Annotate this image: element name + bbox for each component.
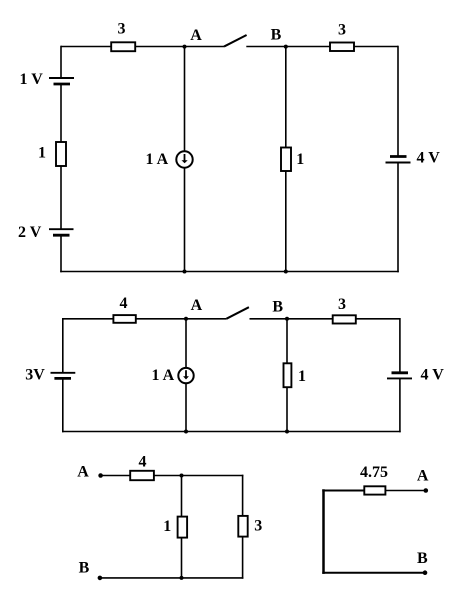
svg-text:3: 3 [254,518,262,535]
junction dot top [180,474,184,478]
wire left side upper [62,318,64,373]
wire right side lower [397,163,399,273]
svg-text:4: 4 [120,295,128,312]
wire A to resistor [101,475,131,477]
battery 2 V [49,229,74,235]
resistor 1 (circuit 1 left branch) [56,142,66,166]
svg-text:4 V: 4 V [421,367,445,384]
junction dot B-bottom [285,430,289,434]
svg-text:4 V: 4 V [417,150,441,167]
current source 1 A (circuit 2) [178,368,193,383]
svg-text:A: A [191,297,203,314]
resistor 3 (circuit 3) [238,516,247,537]
wire left vertical [322,489,325,574]
node B (circuit 1) [284,45,288,49]
wire battery to resistor [60,84,62,142]
battery 4 V (circuit 2) [387,373,412,379]
wire right side upper [399,318,401,373]
resistor 4.75 [364,486,385,494]
resistor 1 (circuit 1 B branch) [281,148,291,172]
svg-text:2 V: 2 V [18,224,42,241]
resistor 1 (circuit 2 B branch) [284,363,292,387]
svg-text:1 V: 1 V [20,71,44,88]
wire top-left segment [61,46,111,48]
svg-text:3: 3 [118,21,126,38]
svg-text:A: A [77,464,89,481]
svg-text:4.75: 4.75 [360,464,388,481]
wire middle branch upper [184,47,186,151]
svg-text:B: B [79,560,90,577]
wire branch 3 lower [242,537,244,579]
wire branch 1 upper [181,476,183,517]
switch (open, circuit 1) [224,35,247,47]
wire top segment left [322,490,364,492]
wire B branch lower [286,387,288,431]
svg-text:3: 3 [338,296,346,313]
svg-text:3: 3 [338,22,346,39]
terminal B [98,576,103,581]
svg-text:3V: 3V [25,367,45,384]
wire middle branch upper [185,319,187,368]
wire branch 1 lower [181,538,183,578]
svg-text:B: B [272,299,283,316]
wire battery to bottom-left corner [60,235,62,272]
wire branch 3 upper [242,475,244,516]
node A (circuit 2) [184,317,188,321]
svg-text:1: 1 [298,368,306,385]
wire resistor to switch pivot [135,46,224,48]
wire switch to node B [246,46,330,48]
svg-text:1 A: 1 A [152,367,175,384]
wire bottom (circuit 2) [62,431,401,433]
wire left side upper [60,46,62,78]
wire resistor to top-right corner [356,318,400,320]
wire bottom (circuit 3) [100,577,244,579]
wire resistor to top-right corner [154,475,244,477]
resistor 4 (circuit 3) [130,471,154,480]
wire right side lower [399,378,401,432]
junction dot middle-bottom [184,430,188,434]
resistor 3 (circuit 1 top-left) [111,42,135,51]
node B (circuit 2) [285,317,289,321]
battery 1 V [49,78,74,84]
wire bottom (circuit 4) [322,572,425,574]
svg-text:B: B [271,27,282,44]
resistor 3 (circuit 1 top-right) [330,43,354,52]
wire middle branch lower [185,384,187,432]
wire bottom (circuit 1) [60,271,399,273]
junction dot bottom [180,576,184,580]
terminal A [424,488,429,493]
terminal A [98,473,103,478]
wire resistor to switch pivot [136,318,227,320]
wire right side upper [397,46,399,157]
resistor 4 (circuit 2 top-left) [113,315,135,323]
terminal B [423,570,428,575]
node A (circuit 1) [183,45,187,49]
junction dot middle-bottom [183,270,187,274]
wire resistor to top-right corner [354,46,398,48]
svg-text:1 A: 1 A [146,151,169,168]
wire resistor to battery 2 V [60,166,62,229]
resistor 3 (circuit 2 top-right) [333,315,356,323]
svg-text:A: A [190,27,202,44]
battery 3V [51,373,76,379]
resistor 1 (circuit 3) [178,517,188,538]
wire switch to node B [250,318,333,320]
svg-text:A: A [417,468,429,485]
wire middle branch lower [184,168,186,272]
wire B branch upper [286,319,288,364]
svg-text:1: 1 [296,151,304,168]
junction dot B-bottom [284,270,288,274]
wire B branch upper [285,47,287,148]
battery 4 V (circuit 1) [386,157,411,163]
wire B branch lower [285,171,287,272]
wire left side lower [62,378,64,432]
current source 1 A (circuit 1) [176,151,192,167]
svg-text:B: B [417,550,428,567]
svg-text:1: 1 [38,145,46,162]
switch (open, circuit 2) [226,307,249,319]
wire top-left segment [63,318,114,320]
svg-text:1: 1 [163,518,171,535]
svg-text:4: 4 [139,454,147,471]
wire resistor to terminal A [385,490,425,492]
